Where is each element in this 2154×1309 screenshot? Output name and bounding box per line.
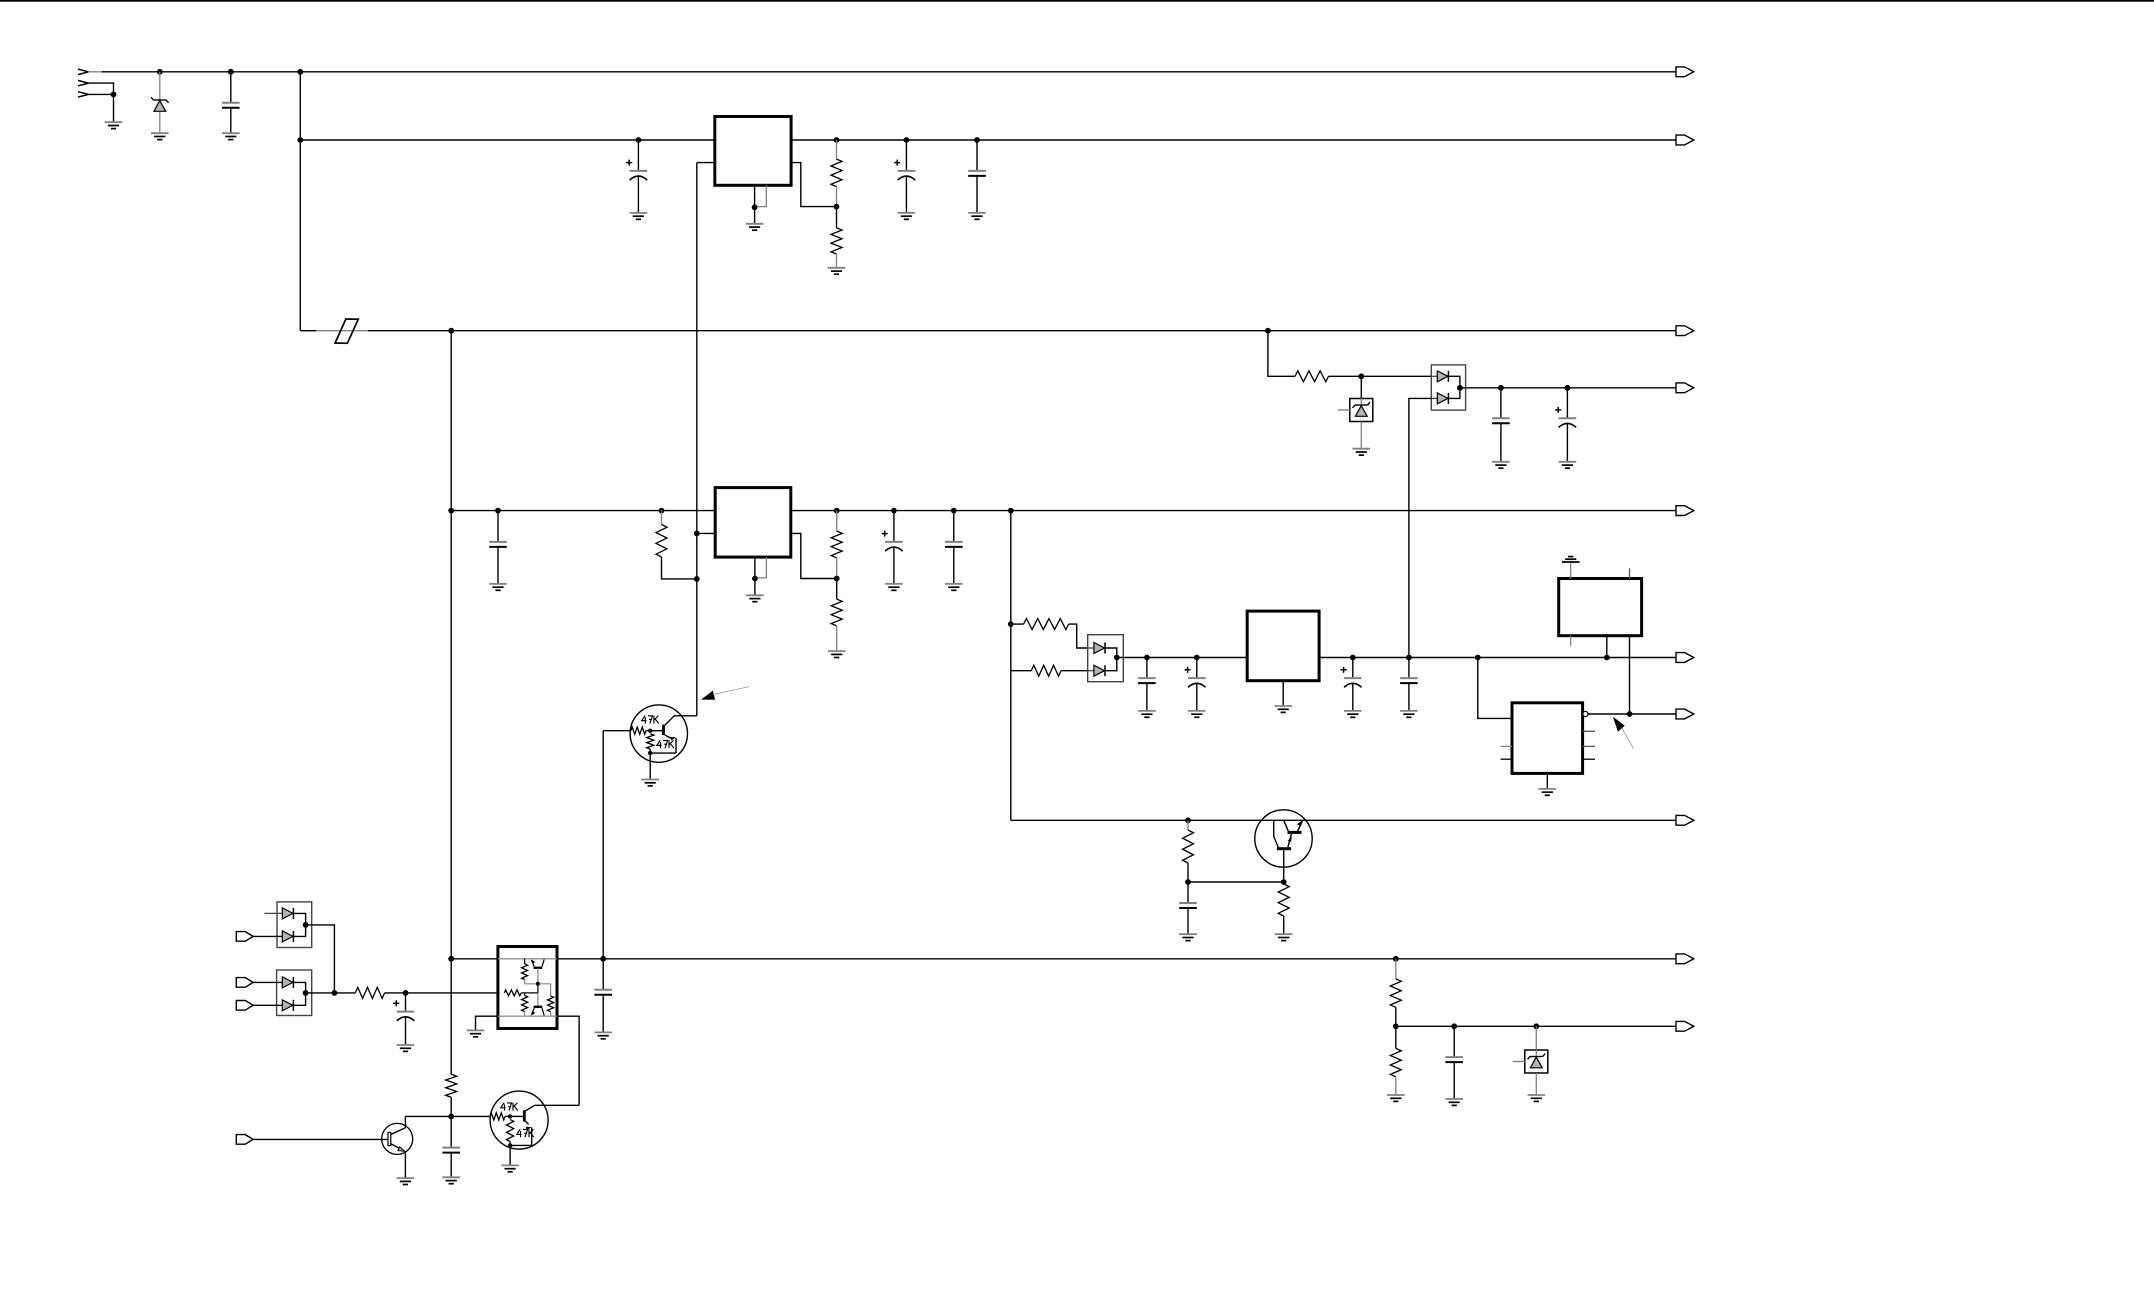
wire resistor R7 to ground <box>836 626 838 651</box>
inverter bubble U5 <box>1583 711 1588 716</box>
wire U6 emitter to ground <box>476 1016 498 1030</box>
node rail5/cap C8 <box>891 508 897 514</box>
resistor R17 (Q4 base 47K) <box>490 1113 505 1120</box>
wire D2a cathode to output <box>1448 376 1460 388</box>
wire node to zener D3 <box>1360 376 1362 398</box>
node Q4 emitter <box>508 1143 512 1147</box>
wire rail5 to cap C9 <box>953 511 955 542</box>
wire rail5 to resistor R5 <box>661 511 663 525</box>
node rail6/V4 <box>1406 655 1412 661</box>
ground G6 <box>828 267 846 269</box>
ground G18 <box>1188 710 1206 712</box>
wire resistor R5 to V2 node <box>662 557 697 579</box>
wire cap C11 to ground <box>1196 683 1198 711</box>
node rail1/vertical V1 <box>297 69 303 75</box>
ground G2 <box>151 132 169 134</box>
wire rail 5 left <box>451 510 715 512</box>
ground G5 <box>746 223 764 225</box>
wire resistor R2 to ground <box>836 254 838 268</box>
transistor Q1 <box>1255 810 1312 867</box>
resistor R11 <box>1278 884 1289 916</box>
wire U4 pin top-left <box>1570 562 1572 579</box>
border frame <box>0 0 2154 2</box>
resistor R16 <box>1390 1048 1401 1076</box>
wire D2b anode left-down (V4) <box>1409 398 1431 657</box>
wire divider to resistor R2 <box>836 207 838 228</box>
node rail6/U4 pin <box>1604 655 1610 661</box>
U6 upper cell <box>524 959 526 964</box>
wire P11 to D5b <box>253 935 282 937</box>
input connector P12 <box>236 978 253 988</box>
input connector P13 <box>236 1001 253 1011</box>
pin U5 right stub 2 <box>1583 745 1595 747</box>
capacitor C5 <box>1492 417 1510 419</box>
zener box D3 <box>1350 399 1373 422</box>
connector J1 pin 1 <box>78 69 88 72</box>
output connector P10 <box>1676 1021 1694 1031</box>
diode box D6 <box>277 970 312 1016</box>
wire rail1 to zener D1 <box>159 72 161 100</box>
wire D5 output down <box>306 925 335 993</box>
wire rail 6 right <box>1319 657 1676 659</box>
node V5/resistor R8 <box>1008 621 1014 627</box>
diode D6b <box>282 1000 293 1011</box>
zener box D7 <box>1525 1050 1548 1073</box>
node rail9/divider <box>1393 956 1399 962</box>
wire rail8 to resistor R10 <box>1187 820 1189 830</box>
label R13 47K <box>657 740 662 745</box>
wire U5 gnd pin <box>1546 773 1548 789</box>
wire Q4 emitter link <box>510 1144 532 1146</box>
ground G32 <box>1528 1094 1546 1096</box>
label R17 47K <box>501 1103 506 1108</box>
wire U3 gnd pin <box>1282 681 1284 706</box>
wire cap C15 to ground <box>405 1017 407 1045</box>
wire rail10 to resistor R16 <box>1395 1026 1397 1048</box>
ground G14 <box>828 650 846 652</box>
wire rail10 to zener D7 <box>1535 1026 1537 1050</box>
wire Q2 base to bar <box>650 730 662 732</box>
node D5/D6 junction <box>332 990 338 996</box>
wire junction to ground <box>113 94 115 122</box>
wire vertical V7 (U4 to rail7) <box>1629 636 1631 714</box>
node divider mid U1 <box>834 204 840 210</box>
resistor R5 <box>656 525 667 557</box>
output connector P4 <box>1676 383 1694 393</box>
wire vertical V6 to U5 <box>1478 658 1512 719</box>
node rail2/cap C3 <box>904 137 910 143</box>
ground G1 <box>105 121 123 123</box>
annotation arrow A1 <box>701 691 715 700</box>
wire rail 9 right <box>557 958 1676 960</box>
wire V5 to resistor R8 <box>1011 623 1024 625</box>
pin U5 right stub 3 <box>1583 758 1595 760</box>
capacitor C16 <box>594 989 612 991</box>
wire rail 2 right <box>791 139 1676 141</box>
ground G20 <box>1344 710 1362 712</box>
node rail5/vertical V5 <box>1008 508 1014 514</box>
wire D4a cathode to output <box>1105 648 1117 658</box>
wire rail 8 <box>1011 819 1676 821</box>
node rail6/V6 <box>1475 655 1481 661</box>
ic U5 <box>1512 703 1583 774</box>
resistor R3 <box>1295 371 1329 382</box>
node rail1/zener D1 <box>157 69 163 75</box>
wire U2 gnd to ground <box>754 579 756 596</box>
wire rail6 to cap C12 <box>1352 658 1354 679</box>
ground G26 <box>641 779 659 781</box>
resistor R10 <box>1183 830 1194 863</box>
ground G24 <box>1179 933 1197 935</box>
wire Q4 to ground <box>509 1145 511 1165</box>
wire rail 2 left <box>300 139 715 141</box>
node rail8/resistor R10 <box>1185 817 1191 823</box>
wire node to cap C18 <box>450 1116 452 1147</box>
wire rail3 down to resistor R3 <box>1268 331 1295 377</box>
node Q2 base <box>648 729 652 733</box>
ground G9 <box>1353 448 1371 450</box>
wire cap C16 to ground <box>602 995 604 1033</box>
node V2/R5 <box>694 576 700 582</box>
resistor R9 <box>1031 665 1061 676</box>
wire rail9 to resistor R15 <box>1395 959 1397 979</box>
wire U4 pin bottom to rail6 <box>1606 636 1608 658</box>
ground G17 <box>1138 710 1156 712</box>
wire U2 enable pin left <box>697 532 715 534</box>
node U1 ground junction <box>752 204 758 210</box>
node rail2/cap C2 <box>636 137 642 143</box>
wire rail 6 left <box>1117 657 1247 659</box>
wire rail 9 inside U6 <box>498 958 557 960</box>
wire cap C2 to ground <box>637 176 639 213</box>
wire cap C9 to ground <box>953 547 955 584</box>
wire resistor R15 to rail10 <box>1395 1007 1397 1026</box>
wire rail 4 <box>1460 387 1676 389</box>
wire rail 7 <box>1588 713 1676 715</box>
wire cap C18 to ground <box>450 1153 452 1178</box>
wire resistor R14 to node <box>385 992 406 994</box>
ground G31 <box>1445 1098 1463 1100</box>
wire V8 node to cap C16 <box>602 959 604 990</box>
resistor R4 (inline V3) <box>446 1074 457 1097</box>
wire cap C6 to ground <box>1566 423 1568 462</box>
capacitor C13 <box>1400 677 1418 679</box>
wire resistor R9 to diode box <box>1061 670 1088 672</box>
ground G23 <box>1539 788 1557 790</box>
diode D5b <box>282 931 293 942</box>
wire vertical V3 <box>450 331 452 1075</box>
resistor R2 <box>831 228 842 254</box>
wire U2 gnd pin 1 <box>754 557 756 578</box>
wire vertical V2 (U1 enable down) <box>696 163 698 716</box>
regulator U1 <box>715 117 791 186</box>
node rail10/zener box <box>1533 1023 1539 1029</box>
wire Q4 collector to V9 <box>535 1104 580 1106</box>
capacitor C7 <box>489 541 507 543</box>
ground G25 <box>1275 933 1293 935</box>
ground G7 <box>898 212 916 214</box>
output connector P2 <box>1676 135 1694 145</box>
node rail6/cap C12 <box>1350 655 1356 661</box>
ground G8 <box>968 212 986 214</box>
node rail9/V3 <box>448 956 454 962</box>
pin U5 left stub 2 <box>1501 758 1513 760</box>
capacitor C17 <box>1445 1056 1463 1058</box>
wire rail4 to cap C6 <box>1566 388 1568 418</box>
ground G15 <box>885 583 903 585</box>
resistor R13 (Q2 inner 47K) <box>647 734 654 749</box>
node rail10 left <box>1393 1023 1399 1029</box>
capacitor C18 <box>442 1147 460 1149</box>
capacitor C2 (polarized) <box>626 162 632 164</box>
diode D2a <box>1431 375 1437 377</box>
node rail5/resistor R5 <box>659 508 665 514</box>
wire rail2 to resistor R1 <box>836 140 838 159</box>
diode D6a <box>282 977 293 988</box>
annotation arrow A2 <box>1613 717 1625 732</box>
ic U6 (dual digital transistor) <box>498 947 557 1029</box>
capacitor C1 <box>222 102 240 104</box>
wire U2 gnd pin 2 <box>755 557 767 578</box>
wire Q2 emitter link <box>650 752 676 754</box>
wire resistor R10 to node <box>1187 863 1189 882</box>
wire resistor R8 to diode box <box>1069 624 1088 648</box>
node rail2/divider R1 <box>834 137 840 143</box>
wire cap C7 to ground <box>497 547 499 584</box>
node D4 output <box>1114 655 1120 661</box>
node D5 output <box>303 922 309 928</box>
ground G29 <box>594 1031 612 1033</box>
ground G4 <box>630 212 648 214</box>
resistor R15 <box>1390 979 1401 1007</box>
diode box D5 <box>277 902 312 948</box>
wire U1 gnd pin 1 <box>754 185 756 207</box>
wire rail 5 right <box>791 510 1676 512</box>
capacitor C8 (polarized) <box>882 533 888 535</box>
wire rail2 to cap C4 <box>976 140 978 171</box>
output connector P1 <box>1676 67 1694 77</box>
wire U1 gnd to ground <box>754 207 756 224</box>
wire Q2 to ground <box>649 753 651 779</box>
node pin2/pin3 junction <box>111 92 117 98</box>
wire rail 9 left <box>451 958 498 960</box>
transistor Q4 (digital) <box>490 1091 548 1149</box>
wire bottom rail inside U6 <box>498 1015 557 1017</box>
ground G34 <box>442 1176 460 1178</box>
wire rail5 to cap C8 <box>893 511 895 542</box>
ground G27 <box>397 1044 415 1046</box>
node rail5/cap C9 <box>951 508 957 514</box>
output connector P7 <box>1676 709 1694 719</box>
node rail10/cap C17 <box>1451 1023 1457 1029</box>
node V1/rail2 <box>297 137 303 143</box>
node rail9/V8 <box>600 956 606 962</box>
node rail3/rectifier branch <box>1265 328 1271 334</box>
node rail4/cap C5 <box>1498 385 1504 391</box>
regulator U2 <box>715 488 791 557</box>
node R10/cap C14 <box>1185 879 1191 885</box>
wire U4 stub bottom-left <box>1570 636 1572 646</box>
node rail4/cap C6 <box>1565 385 1571 391</box>
wire D6b cathode to output <box>293 993 305 1005</box>
wire cap C4 to ground <box>976 176 978 213</box>
resistor R18 (Q4 inner 47K) <box>507 1120 514 1142</box>
wire node to optocoupler U6 <box>406 992 505 994</box>
pin U5 left stub 1 <box>1501 745 1513 747</box>
wire vertical V8 <box>602 731 604 959</box>
output connector P3 <box>1676 326 1694 336</box>
node rail5/cap C7 <box>495 508 501 514</box>
input connector P11 <box>236 932 253 942</box>
node divider mid U2 <box>834 576 840 582</box>
pin U5 right stub 1 <box>1583 730 1595 732</box>
dc-dc converter U3 <box>1247 611 1319 681</box>
wire cap C17 to ground <box>1453 1062 1455 1099</box>
node rail6/cap C10 <box>1144 655 1150 661</box>
wire D5b cathode to output <box>293 925 305 937</box>
ground G12 <box>489 583 507 585</box>
capacitor C10 <box>1138 677 1156 679</box>
wire resistor R11 to ground <box>1283 916 1285 934</box>
diode D4b <box>1088 670 1094 672</box>
capacitor C3 (polarized) <box>894 162 900 164</box>
capacitor C11 (polarized) <box>1185 669 1191 671</box>
node D2 output <box>1457 385 1463 391</box>
connector J1 pin 3 <box>78 92 88 95</box>
wire rail1 to cap C1 <box>230 72 232 103</box>
wire D6 output right <box>306 992 335 994</box>
wire vertical V1 <box>299 72 301 331</box>
node rail7/V7 <box>1627 711 1633 717</box>
node rail5/V3 <box>448 508 454 514</box>
ground G33 <box>397 1177 415 1179</box>
ground G35 <box>501 1164 519 1166</box>
capacitor C4 <box>968 170 986 172</box>
wire rail 3 <box>300 330 316 332</box>
wire rail2 to cap C2 <box>637 140 639 171</box>
wire rail 1 (top bus) <box>88 71 101 73</box>
diode box D2 <box>1431 365 1465 410</box>
label R18 47K <box>517 1129 522 1134</box>
output connector P6 <box>1676 653 1694 663</box>
wire P13 to D6b <box>253 1004 282 1006</box>
wire D5a cathode to output <box>293 913 305 925</box>
wire node to Q4 base <box>451 1115 490 1117</box>
wire resistor R16 to ground <box>1395 1077 1397 1095</box>
node rail3/vertical V3 <box>448 328 454 334</box>
wire U2 adj pin right <box>791 533 837 578</box>
wire resistor R1 to node <box>836 187 838 207</box>
wire cap C12 to ground <box>1352 683 1354 711</box>
wire vertical V5 <box>1010 511 1012 821</box>
wire P14 to transistor Q3 <box>253 1138 388 1140</box>
wire rail5 to resistor R6 <box>836 511 838 531</box>
output connector P9 <box>1676 954 1694 964</box>
ic U4 <box>1559 579 1642 636</box>
ground G19 <box>1274 705 1292 707</box>
wire U6 output right (V9) <box>557 1016 579 1105</box>
wire U1 enable pin left <box>697 162 715 164</box>
wire cap C15 drop <box>405 993 407 1012</box>
resistor R14 <box>355 987 384 998</box>
connector J1 pin 2 <box>78 80 88 83</box>
diode D4a <box>1088 647 1094 649</box>
node U2 ground junction <box>752 576 758 582</box>
wire U1 adj pin right <box>791 163 836 207</box>
wire rail6 to cap C11 <box>1196 658 1198 679</box>
capacitor C15 (polarized) <box>393 1002 399 1004</box>
ground G16 <box>945 583 963 585</box>
node Q1 emitter junction <box>1281 879 1287 885</box>
wire resistor R3 to node <box>1329 375 1362 377</box>
resistor R8 <box>1024 619 1069 630</box>
wire cap C1 to ground <box>230 108 232 133</box>
transistor Q3 <box>382 1123 413 1154</box>
ground G3 <box>222 132 240 134</box>
transistor Q2 (digital) <box>630 705 687 762</box>
fuse F1 <box>335 319 358 343</box>
wire cap C13 to ground <box>1408 683 1410 711</box>
wire cap C14 to ground <box>1187 908 1189 934</box>
resistor R7 <box>831 599 842 626</box>
capacitor C9 <box>945 541 963 543</box>
node V3 bottom junction <box>448 1114 454 1120</box>
wire cap C10 to ground <box>1146 683 1148 711</box>
resistor R12 (Q2 base 47K) <box>631 727 646 734</box>
wire cap C3 to ground <box>905 176 907 213</box>
wire node to cap C14 <box>1187 882 1189 903</box>
wire D6a cathode to output <box>293 982 305 993</box>
resistor R1 <box>831 159 842 187</box>
capacitor C12 (polarized) <box>1341 669 1347 671</box>
node Q2 emitter <box>648 751 652 755</box>
wire zener D3 to ground <box>1360 422 1362 449</box>
wire pin2 to ground node <box>88 83 113 94</box>
wire base link <box>1188 881 1284 883</box>
node D6 output <box>303 990 309 996</box>
wire rail6 to cap C10 <box>1146 658 1148 679</box>
ground G11 <box>1559 461 1577 463</box>
wire pin3 to ground node <box>88 93 113 95</box>
ground G21 <box>1400 710 1418 712</box>
wire U1 gnd pin 2 <box>755 185 767 206</box>
wire V2 to Q2 collector <box>665 716 697 725</box>
wire junction to resistor R14 <box>334 992 355 994</box>
wire rail5 to cap C7 <box>497 511 499 542</box>
output connector P8 <box>1676 815 1694 825</box>
wire rail6 to cap C13 <box>1408 658 1410 679</box>
wire node to diode box D2 <box>1361 375 1431 377</box>
node rail1/cap C1 <box>228 69 234 75</box>
wire zener D1 to ground <box>159 112 161 134</box>
node Q4 base <box>508 1114 512 1118</box>
ground G28 <box>467 1029 485 1031</box>
ground G10 <box>1492 461 1510 463</box>
node rail5/divider R6 <box>834 508 840 514</box>
wire cap C8 to ground <box>893 547 895 584</box>
input connector P14 <box>236 1135 253 1145</box>
ground G22 (inverted) <box>1562 561 1580 563</box>
node rail6/cap C11 <box>1194 655 1200 661</box>
wire cap C5 to ground <box>1500 423 1502 462</box>
output connector P5 <box>1676 506 1694 516</box>
wire D2b cathode to output <box>1448 388 1460 399</box>
resistor R6 <box>831 531 842 558</box>
diode D5a <box>282 908 293 919</box>
node R3/zener box <box>1358 373 1364 379</box>
U6 base resistor row <box>504 990 521 996</box>
wire rail4 to cap C5 <box>1500 388 1502 418</box>
